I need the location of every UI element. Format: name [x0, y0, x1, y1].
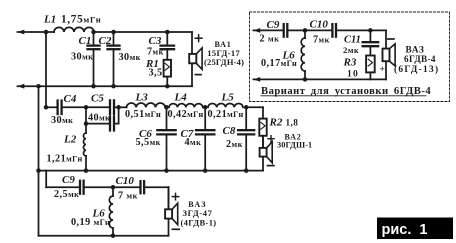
svg-text:C3: C3	[149, 35, 162, 47]
svg-text:L1: L1	[43, 14, 56, 26]
svg-text:C8: C8	[223, 125, 236, 137]
svg-text:7 мк: 7 мк	[118, 190, 138, 201]
svg-text:0,21мГн: 0,21мГн	[208, 109, 244, 120]
svg-text:C9: C9	[62, 174, 75, 186]
svg-text:2,5мк: 2,5мк	[54, 189, 79, 200]
svg-text:0,19 мГн: 0,19 мГн	[71, 217, 110, 228]
svg-text:C5: C5	[91, 92, 104, 104]
svg-text:10: 10	[347, 69, 359, 80]
svg-text:C1: C1	[79, 35, 92, 47]
svg-text:Вариант для установки 6ГДВ-4: Вариант для установки 6ГДВ-4	[261, 86, 431, 97]
svg-text:(25ГДН-4): (25ГДН-4)	[204, 57, 244, 67]
svg-text:C2: C2	[99, 35, 112, 47]
svg-text:C11: C11	[344, 34, 361, 45]
svg-text:2мк: 2мк	[343, 45, 359, 55]
svg-text:1,75мГн: 1,75мГн	[61, 14, 101, 26]
svg-text:3,5: 3,5	[149, 68, 163, 79]
svg-text:2 мк: 2 мк	[260, 34, 280, 45]
svg-text:1,21мГн: 1,21мГн	[47, 154, 83, 165]
svg-text:30мк: 30мк	[51, 115, 73, 126]
svg-text:(6ГД-13): (6ГД-13)	[394, 64, 439, 75]
svg-text:ВАЗ: ВАЗ	[406, 45, 425, 55]
svg-text:+: +	[380, 65, 385, 75]
svg-text:30мк: 30мк	[119, 52, 141, 63]
svg-text:L3: L3	[135, 91, 149, 103]
svg-text:R2: R2	[269, 117, 283, 129]
svg-text:40мк: 40мк	[88, 112, 110, 123]
svg-text:0,51мГн: 0,51мГн	[125, 109, 161, 120]
svg-text:30мк: 30мк	[71, 51, 93, 62]
svg-text:R3: R3	[343, 57, 357, 69]
svg-text:(4ГДВ-1): (4ГДВ-1)	[181, 217, 217, 227]
svg-text:6ГДВ-4: 6ГДВ-4	[404, 54, 436, 64]
svg-text:C9: C9	[267, 19, 280, 31]
svg-text:7мк: 7мк	[313, 35, 330, 46]
svg-text:0,42мГн: 0,42мГн	[168, 109, 204, 120]
svg-text:5,5мк: 5,5мк	[136, 137, 161, 148]
svg-text:L5: L5	[221, 91, 235, 103]
svg-text:рис. 1: рис. 1	[382, 222, 428, 238]
svg-text:L2: L2	[63, 133, 77, 145]
svg-text:L4: L4	[174, 91, 188, 103]
svg-text:C10: C10	[310, 19, 329, 31]
svg-text:C10: C10	[116, 175, 135, 187]
svg-text:0,17мГн: 0,17мГн	[261, 58, 297, 69]
svg-text:C4: C4	[64, 93, 77, 105]
svg-text:4мк: 4мк	[185, 137, 202, 148]
svg-text:1,8: 1,8	[286, 118, 299, 128]
svg-text:30ГДШ-1: 30ГДШ-1	[277, 140, 312, 149]
svg-text:7мк: 7мк	[147, 47, 164, 58]
svg-text:2мк: 2мк	[226, 139, 243, 150]
